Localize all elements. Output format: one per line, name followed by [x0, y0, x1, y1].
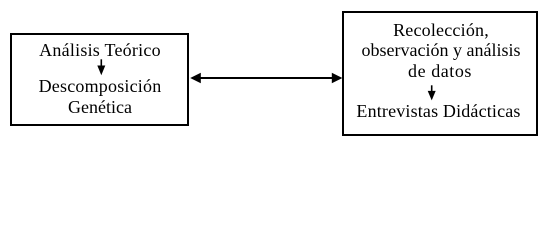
right box text line 4 — [356, 102, 520, 120]
left box text line 1 — [39, 41, 161, 59]
left box text line 3 — [68, 98, 132, 116]
right box: Recolección ... Entrevistas Didácticas — [342, 11, 538, 136]
right box text line 2 — [362, 41, 521, 59]
double-headed arrow between boxes — [189, 70, 343, 87]
down arrow in right box — [424, 84, 441, 101]
left box: Análisis Teórico / Descomposición Genética — [10, 33, 189, 126]
right box text line 1 — [393, 21, 489, 39]
down arrow in left box — [93, 58, 110, 76]
left box text line 2 — [39, 77, 162, 95]
right box text line 3 — [408, 62, 472, 80]
